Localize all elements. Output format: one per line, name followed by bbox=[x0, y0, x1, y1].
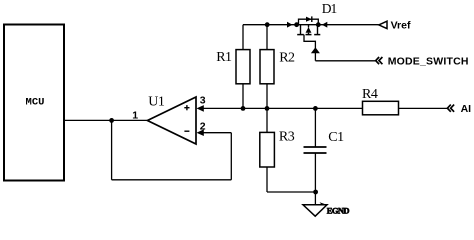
node R2 top bbox=[265, 22, 270, 27]
wire gate stub bbox=[304, 35, 315, 61]
node R2 bottom / R3 top bbox=[265, 106, 270, 111]
diode D1 bypass branch bbox=[299, 16, 319, 24]
resistor R4 bbox=[362, 87, 399, 115]
wire R4 to AI port bbox=[399, 107, 448, 109]
port MODE_SWITCH bbox=[376, 55, 469, 67]
wire top rail bbox=[243, 24, 379, 26]
wire R2 bottom lead bbox=[266, 84, 268, 109]
pin 1 label bbox=[132, 110, 138, 122]
svg-text:R4: R4 bbox=[362, 87, 378, 102]
diode D1 label bbox=[322, 1, 337, 16]
svg-text:Vref: Vref bbox=[391, 20, 411, 32]
capacitor C1 bbox=[304, 130, 345, 153]
pin 3 label bbox=[200, 95, 206, 107]
op-amp U1 bbox=[147, 95, 203, 144]
wire rail arrow left bbox=[322, 22, 328, 28]
wire pin3 main line bbox=[203, 107, 363, 109]
wire R3 top lead bbox=[266, 108, 268, 132]
resistor R3 bbox=[260, 130, 295, 168]
svg-text:R1: R1 bbox=[216, 50, 232, 65]
svg-text:MODE_SWITCH: MODE_SWITCH bbox=[388, 55, 469, 67]
svg-text:2: 2 bbox=[200, 121, 206, 133]
wire R1 bottom lead bbox=[242, 84, 244, 109]
svg-text:C1: C1 bbox=[328, 130, 344, 145]
port AI bbox=[447, 103, 471, 115]
wire MCU output to U1 pin1 bbox=[64, 119, 148, 121]
wire rail arrow right bbox=[287, 22, 293, 28]
svg-text:3: 3 bbox=[200, 95, 206, 107]
svg-text:EGND: EGND bbox=[327, 206, 350, 216]
node ground junction bbox=[313, 190, 318, 195]
MCU block bbox=[4, 25, 64, 181]
node C1 top / R4 bbox=[313, 106, 318, 111]
wire gate to MODE_SWITCH bbox=[315, 60, 375, 62]
pin 2 label bbox=[200, 121, 206, 133]
svg-text:U1: U1 bbox=[148, 95, 165, 110]
wire ground lead bbox=[314, 192, 316, 205]
wire R1 top lead bbox=[242, 25, 244, 50]
node D1 left bbox=[294, 22, 299, 27]
node R1 bottom bbox=[241, 106, 246, 111]
wire feedback bottom horizontal bbox=[112, 179, 232, 181]
resistor R1 bbox=[216, 50, 250, 84]
node feedback junction on pin1 wire bbox=[109, 118, 114, 123]
wire R3 bottom lead bbox=[266, 167, 268, 192]
port Vref bbox=[379, 20, 411, 32]
wire pin2 to feedback bbox=[203, 132, 231, 134]
transistor Q1 pass element bbox=[297, 25, 320, 35]
wire R2 top lead bbox=[266, 25, 268, 50]
wire gate arrow bbox=[311, 47, 320, 53]
svg-text:D1: D1 bbox=[322, 1, 337, 16]
wire bottom rail R3 to C1 bbox=[267, 191, 315, 193]
wire C1 top lead bbox=[314, 108, 316, 147]
wire feedback left vertical bbox=[111, 120, 113, 179]
svg-text:R3: R3 bbox=[279, 130, 295, 145]
node D1 right bbox=[316, 22, 321, 27]
wire feedback right vertical bbox=[230, 133, 232, 180]
svg-text:MCU: MCU bbox=[26, 97, 45, 109]
svg-text:AI: AI bbox=[461, 103, 472, 115]
ground bbox=[303, 202, 349, 216]
wire C1 bottom lead bbox=[314, 153, 316, 192]
resistor R2 bbox=[260, 50, 295, 84]
svg-text:1: 1 bbox=[132, 110, 138, 122]
svg-text:R2: R2 bbox=[279, 51, 295, 66]
